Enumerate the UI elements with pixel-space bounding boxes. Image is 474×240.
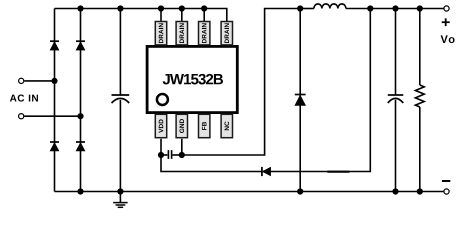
wire: VDD node to bypass cap xyxy=(161,154,167,156)
wire: DRAIN pin 6 lead xyxy=(203,9,205,22)
pin 7 DRAIN xyxy=(176,22,187,45)
wire: GND pin lead xyxy=(181,139,183,155)
junction: AC line 1 / left column xyxy=(51,78,57,84)
junction: top rail / drain pin 7 xyxy=(179,5,185,11)
wire: AC input line 1 xyxy=(24,80,54,82)
wire: top rail from bridge output to DRAIN pins xyxy=(55,9,227,22)
wire: input capacitor branch top lead xyxy=(119,9,121,95)
diode D4 bridge lower-right xyxy=(76,142,85,151)
IC U1 JW1532B body xyxy=(147,46,237,112)
pin 5 DRAIN xyxy=(221,22,232,45)
wire: output capacitor branch bottom lead xyxy=(395,100,397,192)
wire: inductor to + output terminal xyxy=(346,8,444,10)
terminal: AC input 2 xyxy=(19,114,24,119)
label JW1532B xyxy=(163,74,223,85)
wire: switch node to inductor xyxy=(300,8,314,10)
junction: VDD node xyxy=(158,152,164,158)
wire: left bridge column xyxy=(54,9,56,192)
wire: load resistor branch bottom lead xyxy=(419,107,421,192)
capacitor C2 VDD bypass xyxy=(168,150,171,159)
pin 4 NC xyxy=(221,114,232,137)
diode D5 freewheeling xyxy=(295,95,306,106)
pin 6 DRAIN xyxy=(199,22,210,45)
junction: top rail / right bridge column xyxy=(77,5,83,11)
pin 8 DRAIN xyxy=(155,22,166,45)
diode D2 bridge upper-right xyxy=(76,41,85,50)
junction: top rail / input cap xyxy=(117,5,123,11)
wire: output capacitor branch top lead xyxy=(395,9,397,95)
pin-1 marker circle xyxy=(157,94,168,105)
label - (output polarity) xyxy=(442,180,450,182)
junction: bottom rail / output cap xyxy=(392,188,398,194)
wire: input capacitor branch bottom lead xyxy=(119,100,121,192)
diode D1 bridge upper-left xyxy=(50,41,59,50)
junction: output rail / load resistor xyxy=(417,5,423,11)
pin 1 VDD xyxy=(155,114,166,137)
junction: bottom rail / input cap and ground xyxy=(117,188,123,194)
wire: AC input line 2 xyxy=(24,115,80,117)
junction: switch node xyxy=(297,5,303,11)
wire: bypass cap to GND node xyxy=(173,154,182,156)
label + (output polarity) xyxy=(442,18,450,26)
wire: VDD pin lead xyxy=(160,139,162,155)
resistor R1 load xyxy=(415,85,424,107)
junction: bottom rail / load resistor xyxy=(417,188,423,194)
ground xyxy=(113,192,127,208)
junction: bottom rail / right bridge column xyxy=(77,188,83,194)
capacitor C1 input bulk cap xyxy=(112,95,130,103)
junction: AC line 2 / right column xyxy=(77,113,83,119)
terminal: AC input 1 xyxy=(19,78,24,83)
wire: DRAIN pin 7 lead xyxy=(181,9,183,22)
pin 2 GND xyxy=(176,114,187,137)
wire: GND node to switch node xyxy=(182,9,300,156)
diode D6 bootstrap (points left) xyxy=(262,167,271,176)
capacitor C3 output cap xyxy=(388,95,404,103)
wire: bootstrap line overlap segment xyxy=(327,171,349,173)
inductor L1 xyxy=(314,4,346,9)
wire: bootstrap line from output to VDD xyxy=(161,9,370,172)
wire: freewheeling diode branch xyxy=(299,9,301,192)
pin 3 FB xyxy=(199,114,210,137)
junction: output rail / bootstrap line xyxy=(367,5,373,11)
wire: load resistor branch top lead xyxy=(419,9,421,86)
wire: right bridge column xyxy=(80,9,82,192)
label AC IN xyxy=(10,95,38,102)
junction: bottom rail / freewheeling diode xyxy=(297,188,303,194)
junction: GND node xyxy=(179,152,185,158)
junction: top rail / drain pin 8 xyxy=(158,5,164,11)
junction: top rail / drain pin 6 xyxy=(201,5,207,11)
terminal: output - xyxy=(444,189,449,194)
wire: bottom rail xyxy=(55,191,444,193)
terminal: output + xyxy=(444,6,449,11)
wire: DRAIN pin 8 lead xyxy=(160,9,162,22)
diode D3 bridge lower-left xyxy=(50,142,59,151)
label Vo xyxy=(441,35,455,43)
junction: output rail / output cap xyxy=(392,5,398,11)
